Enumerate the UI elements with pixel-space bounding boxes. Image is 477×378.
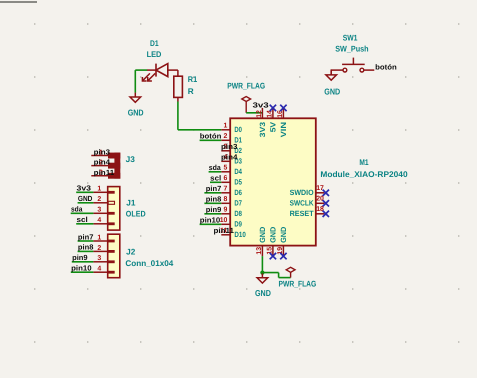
switch SW1 [331,58,374,72]
svg-text:10: 10 [220,217,228,224]
svg-text:SWDIO: SWDIO [290,188,314,197]
svg-text:D10: D10 [234,230,245,239]
M1 pin 4 (D3) [221,154,242,165]
M1 pin 12 (3V3) top [256,108,267,137]
svg-text:pin4: pin4 [221,152,238,161]
svg-text:sda: sda [71,205,83,214]
wire from LED cathode to GND [135,69,147,71]
J2 pin 3 [93,255,114,263]
M1 pin 20 (SWCLK) right [290,195,325,207]
svg-text:5: 5 [224,165,228,172]
M1 pin 11 (D10) [220,228,246,239]
svg-text:pin11: pin11 [94,168,115,177]
svg-text:8: 8 [224,196,228,203]
no-connect SWCLK [323,200,329,206]
no-connect SWDIO [323,190,329,196]
svg-text:pin8: pin8 [206,195,222,204]
svg-text:pin3: pin3 [94,148,110,157]
power flag PWR_FLAG (3v3) [242,97,251,102]
svg-text:D9: D9 [234,220,242,229]
J3 pin 3 [91,170,108,177]
M1 pin 8 (D7) [221,196,242,207]
no-connect GND 15 [270,253,276,259]
svg-text:pin3: pin3 [221,142,237,151]
wire + net label sda at J1 [71,212,94,214]
M1 pin 13 (GND) bottom [256,226,267,256]
svg-text:D8: D8 [234,209,242,218]
svg-text:D1: D1 [150,39,159,48]
svg-text:3: 3 [97,255,101,262]
svg-text:scl: scl [210,174,221,183]
power flag PWR_FLAG (GND) [286,267,295,272]
M1 pin 5 (D4) [221,165,242,176]
wire GND pin 13 down to junction [261,256,263,273]
svg-text:1: 1 [224,123,228,130]
wire + net label pin8 [204,202,221,204]
svg-text:Conn_01x04: Conn_01x04 [125,259,173,268]
svg-text:13: 13 [256,247,263,255]
wire + net label botón (pin 2) [200,139,222,141]
svg-text:GND: GND [128,107,144,117]
svg-text:7: 7 [224,186,228,193]
M1 pin 10 (D9) [220,217,242,228]
J1 pin 1 [93,186,114,194]
wire + net label sda (pin 5) [209,171,222,173]
svg-text:M1: M1 [359,158,369,167]
connector J1 body [108,187,120,231]
J3 pin 1 [91,149,108,156]
M1 pin 16 (VIN) top [277,108,288,137]
wire + net label pin7 [204,192,221,194]
J2 pin 1 [93,234,114,242]
wire PWR_FLAG to 3V3 pin [246,112,262,114]
svg-text:botón: botón [375,62,397,71]
J2 pin 2 [93,245,114,253]
svg-text:9: 9 [224,207,228,214]
wire + net label pin10 [200,223,222,225]
M1 pin 17 (SWDIO) right [290,185,325,197]
svg-text:2: 2 [224,133,228,140]
no-connect 5V [270,105,276,111]
svg-text:1: 1 [97,234,101,241]
svg-text:D5: D5 [234,178,242,187]
M1 pin 18 (RESET) right [290,206,325,218]
wire + net label pin9 at J2 [72,261,94,263]
wire + net label GND at J1 [78,202,94,204]
M1 pin 14 (5V) top [267,108,278,132]
no-connect GND 19 [280,253,286,259]
svg-text:SWCLK: SWCLK [290,199,314,208]
J2 pin 4 [93,266,114,274]
svg-text:R1: R1 [188,75,198,84]
svg-text:D0: D0 [234,125,242,134]
svg-text:GND: GND [258,226,267,243]
svg-text:D6: D6 [234,188,242,197]
svg-text:GND: GND [255,288,271,298]
svg-text:pin4: pin4 [94,158,111,167]
svg-text:3v3: 3v3 [253,100,269,109]
wire + net label scl (pin 6) [210,181,221,183]
svg-text:GND: GND [279,226,288,243]
svg-text:pin10: pin10 [200,216,221,225]
svg-text:3V3: 3V3 [258,122,267,137]
wire R1 to module pin 1 [177,102,179,130]
svg-text:botón: botón [200,132,222,141]
M1 pin 2 (D1) [221,133,242,144]
svg-text:PWR_FLAG: PWR_FLAG [227,81,265,90]
svg-text:sda: sda [209,163,222,172]
J1 pin 3 [93,207,114,215]
svg-text:4: 4 [97,217,101,224]
svg-text:2: 2 [97,196,101,203]
M1 pin 3 (D2) [221,144,242,155]
wire + net label 3v3 at J1 [76,191,93,193]
svg-text:SW1: SW1 [343,33,358,42]
svg-text:J1: J1 [126,198,136,207]
module U/M1 body [230,118,316,245]
ground below module [261,273,263,277]
svg-text:J2: J2 [126,247,136,256]
svg-text:GND: GND [78,194,93,203]
wire + net label pin8 at J2 [78,250,94,252]
no-connect RESET [323,211,329,217]
M1 pin 7 (D6) [221,186,242,197]
J3 pin 2 [91,159,108,166]
M1 pin 19 (GND) bottom [277,226,288,256]
svg-text:3: 3 [97,207,101,214]
svg-text:2: 2 [97,245,101,252]
svg-text:6: 6 [224,175,228,182]
M1 pin 6 (D5) [221,175,242,186]
ground below SW1 [330,71,332,75]
svg-text:J3: J3 [126,155,136,164]
svg-text:VIN: VIN [279,122,288,137]
M1 pin 1 (D0) [221,123,242,134]
connector J2 body [108,234,120,278]
wire + net label pin9 [204,213,221,215]
svg-text:OLED: OLED [126,210,146,219]
svg-text:3v3: 3v3 [77,184,92,193]
wire junction to PWR_FLAG [262,272,278,274]
wire + net label scl at J1 [76,223,93,225]
svg-text:GND: GND [324,86,340,96]
svg-text:pin7: pin7 [78,232,94,241]
svg-text:5V: 5V [269,121,278,132]
svg-text:SW_Push: SW_Push [335,45,368,54]
svg-text:pin9: pin9 [72,253,88,262]
svg-text:4: 4 [97,266,101,273]
svg-text:pin9: pin9 [206,205,222,214]
J1 pin 4 [93,217,114,225]
svg-text:GND: GND [269,226,278,243]
wire + net label pin10 at J2 [71,271,94,273]
LED D1 [142,64,178,81]
svg-text:RESET: RESET [290,209,314,218]
wire + net label pin7 at J2 [78,240,94,242]
resistor R1 [174,70,183,101]
M1 pin 15 (GND) bottom [267,226,278,256]
svg-text:D7: D7 [234,199,242,208]
svg-text:pin11: pin11 [214,226,235,235]
no-connect VIN [280,105,286,111]
junction [260,271,264,275]
svg-text:D4: D4 [234,167,242,176]
ground below LED [134,93,136,97]
svg-text:1: 1 [97,186,101,193]
svg-text:pin7: pin7 [206,184,222,193]
J1 pin 2 [93,196,114,204]
svg-text:PWR_FLAG: PWR_FLAG [279,280,317,289]
M1 pin 9 (D8) [221,207,242,218]
svg-text:scl: scl [77,215,88,224]
svg-text:12: 12 [256,110,263,118]
svg-text:pin8: pin8 [78,243,94,252]
svg-text:R: R [188,87,194,96]
svg-text:pin10: pin10 [71,264,92,273]
svg-text:LED: LED [147,50,162,59]
svg-text:Module_XIAO-RP2040: Module_XIAO-RP2040 [320,170,408,179]
connector J3 body [108,153,120,179]
